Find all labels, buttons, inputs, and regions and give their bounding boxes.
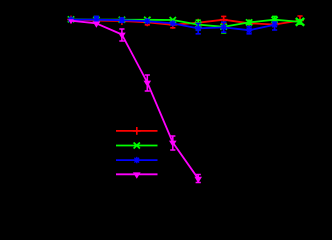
series blue: line <box>71 20 275 31</box>
series green: error bars <box>94 16 303 33</box>
legend entry blue <box>116 157 158 163</box>
final green X marker <box>296 18 304 26</box>
series red: error bars <box>145 16 303 28</box>
legend entry magenta <box>116 172 158 178</box>
legend entry green <box>116 143 158 149</box>
series red: plus markers <box>67 16 304 29</box>
legend entry red <box>116 127 158 135</box>
series green: line <box>71 19 300 26</box>
series green: X markers <box>68 16 278 29</box>
series blue: error bars <box>94 16 277 33</box>
series magenta: error bars <box>119 29 201 183</box>
series blue: star markers <box>68 16 278 33</box>
series magenta: triangle markers <box>68 19 202 183</box>
series red: line <box>71 20 300 25</box>
series magenta: line <box>71 21 198 179</box>
